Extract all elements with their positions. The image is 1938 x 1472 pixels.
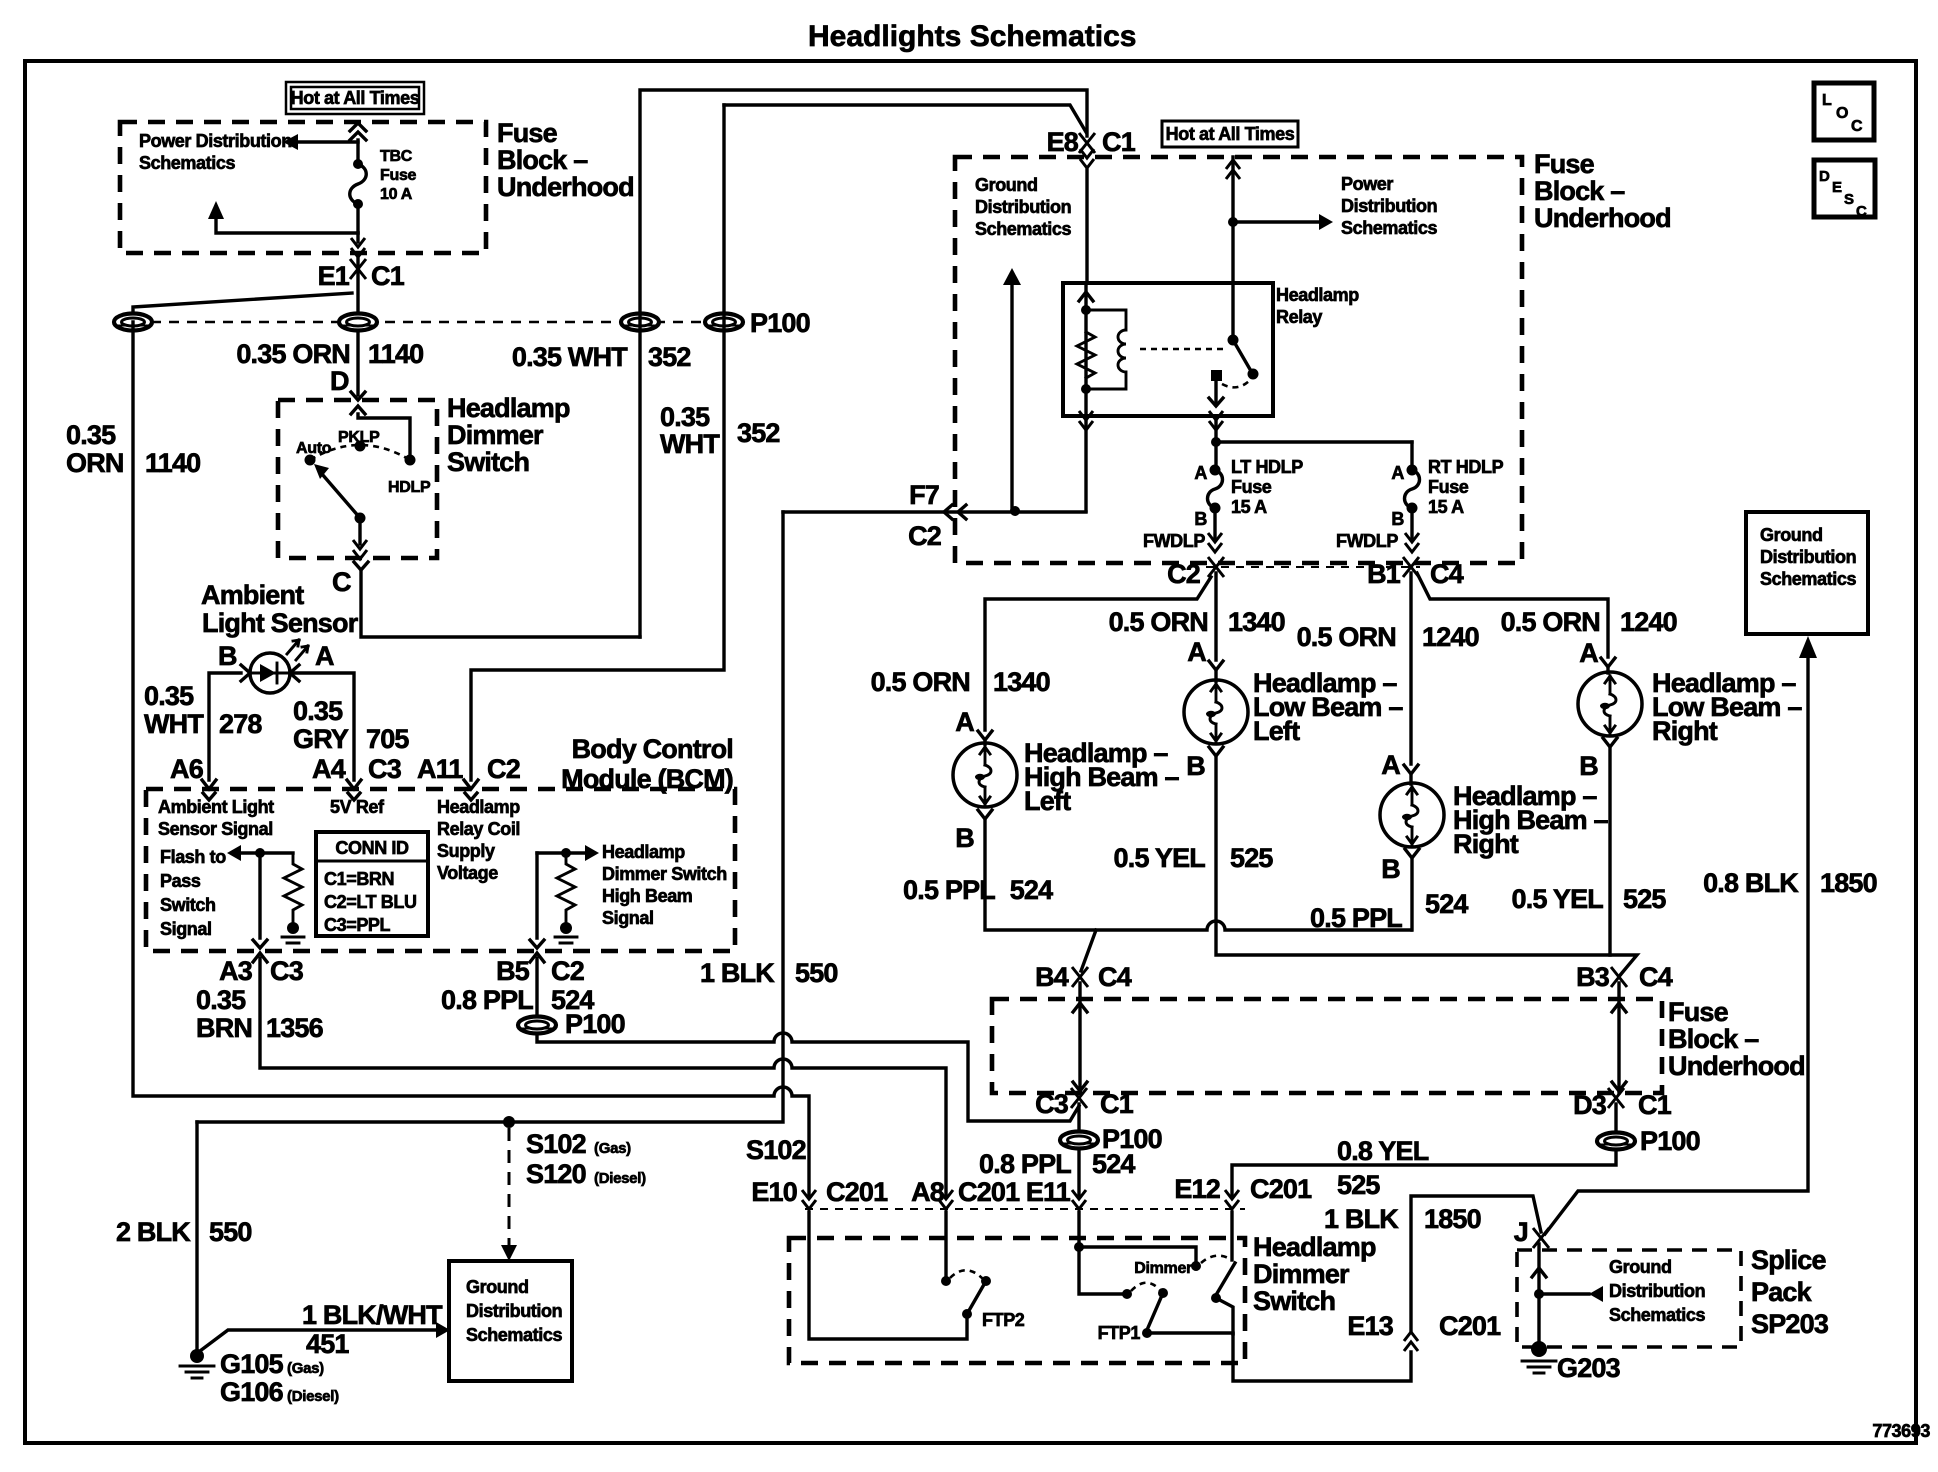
svg-text:Auto: Auto: [296, 440, 332, 457]
svg-text:E8: E8: [1047, 127, 1079, 157]
svg-text:0.8 BLK: 0.8 BLK: [1703, 868, 1799, 898]
svg-text:High Beam: High Beam: [602, 886, 692, 906]
svg-text:524: 524: [1425, 889, 1468, 919]
svg-text:FWDLP: FWDLP: [1336, 531, 1398, 551]
svg-text:S102: S102: [746, 1135, 806, 1165]
svg-text:Relay: Relay: [1276, 307, 1322, 327]
svg-text:B: B: [218, 641, 237, 671]
svg-text:A: A: [1381, 750, 1400, 780]
svg-text:Relay Coil: Relay Coil: [437, 819, 520, 839]
svg-text:Sensor Signal: Sensor Signal: [158, 819, 273, 839]
svg-text:FWDLP: FWDLP: [1143, 531, 1205, 551]
svg-text:15 A: 15 A: [1231, 497, 1267, 517]
svg-text:Hot at All Times: Hot at All Times: [1166, 124, 1295, 144]
svg-text:G106: G106: [220, 1377, 284, 1407]
svg-text:Right: Right: [1453, 829, 1519, 859]
svg-text:Headlamp: Headlamp: [437, 797, 520, 817]
svg-text:A: A: [1391, 463, 1404, 483]
svg-text:Underhood: Underhood: [1534, 203, 1671, 233]
svg-text:Underhood: Underhood: [1668, 1051, 1805, 1081]
svg-text:524: 524: [1003, 875, 1053, 905]
svg-text:0.35: 0.35: [660, 402, 710, 432]
svg-text:705: 705: [366, 724, 409, 754]
svg-text:E: E: [1832, 179, 1842, 196]
svg-text:C: C: [1851, 118, 1863, 135]
svg-text:Headlamp: Headlamp: [1276, 285, 1359, 305]
svg-text:C201: C201: [826, 1177, 888, 1207]
svg-text:0.5 PPL: 0.5 PPL: [1310, 903, 1402, 933]
svg-text:Fuse: Fuse: [1668, 997, 1729, 1027]
svg-text:Schematics: Schematics: [975, 219, 1071, 239]
svg-text:Block –: Block –: [1534, 176, 1625, 206]
svg-text:SP203: SP203: [1751, 1309, 1829, 1339]
svg-text:(Gas): (Gas): [287, 1360, 324, 1377]
svg-text:15 A: 15 A: [1428, 497, 1464, 517]
svg-text:0.35: 0.35: [196, 985, 246, 1015]
svg-text:Ground: Ground: [975, 175, 1038, 195]
svg-text:Left: Left: [1024, 786, 1071, 816]
svg-text:352: 352: [737, 418, 780, 448]
svg-text:Headlamp: Headlamp: [602, 842, 685, 862]
svg-text:A11: A11: [417, 754, 463, 784]
svg-text:A: A: [315, 641, 334, 671]
svg-text:Signal: Signal: [160, 919, 212, 939]
svg-text:E12: E12: [1174, 1174, 1220, 1204]
svg-text:C2: C2: [1167, 559, 1200, 589]
svg-text:S: S: [1844, 191, 1854, 208]
svg-text:(Diesel): (Diesel): [287, 1388, 339, 1405]
svg-text:B: B: [1579, 751, 1598, 781]
svg-text:A6: A6: [170, 754, 204, 784]
svg-text:B1: B1: [1367, 559, 1401, 589]
svg-text:C201: C201: [1250, 1174, 1312, 1204]
svg-text:C2=LT BLU: C2=LT BLU: [324, 892, 417, 912]
svg-text:524: 524: [1092, 1149, 1135, 1179]
svg-text:Distribution: Distribution: [466, 1301, 562, 1321]
svg-text:Fuse: Fuse: [1428, 477, 1469, 497]
svg-text:A: A: [955, 707, 974, 737]
svg-text:Fuse: Fuse: [497, 118, 558, 148]
svg-text:1 BLK/WHT: 1 BLK/WHT: [302, 1300, 443, 1330]
svg-text:278: 278: [219, 709, 262, 739]
svg-text:(Gas): (Gas): [594, 1140, 631, 1157]
svg-text:Fuse: Fuse: [1534, 149, 1595, 179]
svg-text:1 BLK: 1 BLK: [700, 958, 775, 988]
svg-text:C1=BRN: C1=BRN: [324, 869, 394, 889]
svg-text:Signal: Signal: [602, 908, 654, 928]
svg-text:C3=PPL: C3=PPL: [324, 915, 391, 935]
svg-text:0.5 PPL: 0.5 PPL: [903, 875, 995, 905]
svg-text:773693: 773693: [1872, 1421, 1930, 1441]
svg-text:E1: E1: [318, 261, 350, 291]
svg-text:0.8 PPL: 0.8 PPL: [979, 1149, 1071, 1179]
svg-text:Ambient: Ambient: [201, 580, 304, 610]
svg-text:C4: C4: [1430, 559, 1464, 589]
svg-text:0.35 WHT: 0.35 WHT: [512, 342, 628, 372]
svg-text:F7: F7: [909, 480, 939, 510]
svg-text:CONN ID: CONN ID: [335, 838, 409, 858]
svg-text:FTP2: FTP2: [982, 1310, 1025, 1330]
svg-text:A: A: [1194, 463, 1207, 483]
svg-text:0.5 ORN: 0.5 ORN: [1297, 622, 1396, 652]
svg-text:1850: 1850: [1424, 1204, 1481, 1234]
svg-text:Light Sensor: Light Sensor: [202, 608, 359, 638]
svg-text:E10: E10: [751, 1177, 797, 1207]
svg-text:Block –: Block –: [1668, 1024, 1759, 1054]
svg-text:10 A: 10 A: [380, 186, 413, 203]
svg-text:Switch: Switch: [1253, 1286, 1335, 1316]
svg-text:A4: A4: [312, 754, 346, 784]
svg-text:S120: S120: [526, 1159, 586, 1189]
svg-text:0.5 ORN: 0.5 ORN: [871, 667, 970, 697]
svg-text:0.5 YEL: 0.5 YEL: [1512, 884, 1604, 914]
svg-text:C1: C1: [1102, 127, 1136, 157]
svg-text:Schematics: Schematics: [139, 153, 235, 173]
svg-text:HDLP: HDLP: [388, 479, 431, 496]
svg-text:B4: B4: [1035, 962, 1069, 992]
svg-text:1240: 1240: [1422, 622, 1479, 652]
svg-text:Headlights Schematics: Headlights Schematics: [808, 20, 1136, 53]
svg-text:Block –: Block –: [497, 145, 588, 175]
svg-text:B: B: [1391, 509, 1404, 529]
svg-text:Distribution: Distribution: [1341, 196, 1437, 216]
svg-text:B: B: [1186, 751, 1205, 781]
svg-text:A8: A8: [911, 1177, 945, 1207]
svg-text:525: 525: [1623, 884, 1666, 914]
svg-text:(Diesel): (Diesel): [594, 1170, 646, 1187]
svg-text:550: 550: [795, 958, 838, 988]
svg-text:1140: 1140: [368, 339, 423, 369]
svg-text:Distribution: Distribution: [975, 197, 1071, 217]
svg-text:C201: C201: [958, 1177, 1020, 1207]
svg-text:Dimmer Switch: Dimmer Switch: [602, 864, 727, 884]
svg-text:Headlamp: Headlamp: [1253, 1232, 1376, 1262]
svg-text:Schematics: Schematics: [466, 1325, 562, 1345]
svg-text:WHT: WHT: [144, 709, 204, 739]
svg-text:L: L: [1822, 92, 1832, 109]
svg-text:A: A: [1187, 637, 1206, 667]
svg-text:Ambient Light: Ambient Light: [158, 797, 274, 817]
svg-text:Power Distribution: Power Distribution: [139, 131, 292, 151]
svg-text:B3: B3: [1576, 962, 1610, 992]
svg-text:Ground: Ground: [1609, 1257, 1672, 1277]
svg-text:P100: P100: [750, 308, 810, 338]
svg-text:Power: Power: [1341, 174, 1393, 194]
svg-text:B5: B5: [496, 956, 530, 986]
svg-text:1240: 1240: [1620, 607, 1677, 637]
svg-text:0.35: 0.35: [293, 696, 343, 726]
svg-text:Ground: Ground: [466, 1277, 529, 1297]
svg-text:5V Ref: 5V Ref: [330, 797, 385, 817]
svg-text:525: 525: [1337, 1170, 1380, 1200]
svg-text:0.35 ORN: 0.35 ORN: [236, 339, 350, 369]
svg-text:1850: 1850: [1820, 868, 1877, 898]
svg-text:1340: 1340: [993, 667, 1050, 697]
svg-text:A3: A3: [219, 956, 253, 986]
svg-text:Pack: Pack: [1751, 1277, 1813, 1307]
svg-text:C4: C4: [1098, 962, 1132, 992]
svg-text:Underhood: Underhood: [497, 172, 634, 202]
svg-text:Distribution: Distribution: [1760, 547, 1856, 567]
svg-text:Dimmer: Dimmer: [1134, 1260, 1192, 1277]
svg-text:Fuse: Fuse: [1231, 477, 1272, 497]
svg-text:C3: C3: [1035, 1089, 1069, 1119]
svg-text:0.5 ORN: 0.5 ORN: [1501, 607, 1600, 637]
svg-text:451: 451: [306, 1329, 349, 1359]
svg-text:352: 352: [648, 342, 691, 372]
svg-text:0.35: 0.35: [144, 681, 194, 711]
svg-text:Schematics: Schematics: [1341, 218, 1437, 238]
svg-text:D: D: [1819, 168, 1830, 185]
svg-text:S102: S102: [526, 1129, 586, 1159]
svg-text:C: C: [1856, 203, 1867, 220]
svg-text:C3: C3: [270, 956, 304, 986]
svg-text:B: B: [1194, 509, 1207, 529]
svg-text:GRY: GRY: [293, 724, 349, 754]
svg-text:525: 525: [1230, 843, 1273, 873]
svg-text:0.5 ORN: 0.5 ORN: [1109, 607, 1208, 637]
svg-text:P100: P100: [1640, 1126, 1700, 1156]
svg-text:C3: C3: [368, 754, 402, 784]
svg-text:Flash to: Flash to: [160, 847, 226, 867]
svg-text:Splice: Splice: [1751, 1245, 1827, 1275]
svg-text:B: B: [955, 823, 974, 853]
svg-text:550: 550: [209, 1217, 252, 1247]
svg-text:C2: C2: [908, 521, 941, 551]
svg-text:Left: Left: [1253, 716, 1300, 746]
svg-text:E13: E13: [1347, 1311, 1393, 1341]
svg-text:C2: C2: [487, 754, 520, 784]
svg-text:Schematics: Schematics: [1609, 1305, 1705, 1325]
svg-text:Switch: Switch: [447, 447, 529, 477]
svg-text:E11: E11: [1026, 1177, 1071, 1207]
svg-text:1140: 1140: [145, 448, 200, 478]
svg-text:Headlamp: Headlamp: [447, 393, 570, 423]
svg-text:C1: C1: [1638, 1090, 1672, 1120]
svg-text:C201: C201: [1439, 1311, 1501, 1341]
svg-text:D: D: [330, 366, 349, 396]
svg-text:G203: G203: [1557, 1353, 1621, 1383]
svg-text:1 BLK: 1 BLK: [1324, 1204, 1399, 1234]
svg-text:Module (BCM): Module (BCM): [561, 764, 733, 794]
svg-text:P100: P100: [565, 1009, 625, 1039]
svg-text:Fuse: Fuse: [380, 167, 417, 184]
svg-text:1340: 1340: [1228, 607, 1285, 637]
svg-text:B: B: [1381, 854, 1400, 884]
svg-text:O: O: [1836, 105, 1848, 122]
svg-text:Schematics: Schematics: [1760, 569, 1856, 589]
svg-text:Voltage: Voltage: [437, 863, 498, 883]
svg-text:Ground: Ground: [1760, 525, 1823, 545]
svg-text:C1: C1: [371, 261, 405, 291]
svg-text:Right: Right: [1652, 716, 1718, 746]
svg-text:BRN: BRN: [196, 1013, 252, 1043]
svg-text:Pass: Pass: [160, 871, 201, 891]
svg-text:2 BLK: 2 BLK: [116, 1217, 191, 1247]
svg-text:RT HDLP: RT HDLP: [1428, 457, 1504, 477]
svg-text:J: J: [1514, 1217, 1528, 1247]
svg-text:0.8 YEL: 0.8 YEL: [1337, 1136, 1429, 1166]
svg-text:Body Control: Body Control: [572, 734, 733, 764]
svg-text:Distribution: Distribution: [1609, 1281, 1705, 1301]
svg-text:PKLP: PKLP: [338, 429, 380, 446]
svg-text:Supply: Supply: [437, 841, 495, 861]
svg-text:Dimmer: Dimmer: [447, 420, 544, 450]
svg-text:C1: C1: [1100, 1089, 1134, 1119]
svg-text:WHT: WHT: [660, 429, 720, 459]
svg-text:C4: C4: [1639, 962, 1673, 992]
svg-text:D3: D3: [1573, 1090, 1607, 1120]
svg-text:Switch: Switch: [160, 895, 216, 915]
svg-text:1356: 1356: [266, 1013, 324, 1043]
svg-text:A: A: [1579, 638, 1598, 668]
svg-text:Hot at All Times: Hot at All Times: [291, 88, 420, 108]
svg-text:0.5 YEL: 0.5 YEL: [1114, 843, 1206, 873]
svg-text:0.35: 0.35: [66, 420, 116, 450]
svg-text:LT HDLP: LT HDLP: [1231, 457, 1303, 477]
svg-text:TBC: TBC: [380, 148, 413, 165]
svg-text:ORN: ORN: [66, 448, 124, 478]
svg-text:FTP1: FTP1: [1098, 1323, 1141, 1343]
svg-text:0.8 PPL: 0.8 PPL: [441, 985, 533, 1015]
svg-text:C: C: [332, 567, 351, 597]
svg-text:G105: G105: [220, 1349, 284, 1379]
svg-text:C2: C2: [551, 956, 584, 986]
svg-text:Dimmer: Dimmer: [1253, 1259, 1350, 1289]
